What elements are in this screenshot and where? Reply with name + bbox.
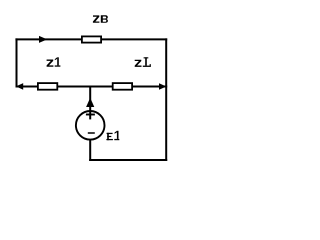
current arrow on middle wire, right (pointing right)	[159, 83, 166, 90]
label ZB: glyph B	[101, 15, 108, 22]
voltage source E1: stem wire from middle wire into circle	[89, 87, 91, 120]
current arrow on middle wire, left (pointing left)	[16, 83, 23, 90]
voltage source E1: minus bar	[88, 132, 95, 134]
resistor ZB (box on top wire)	[82, 36, 101, 42]
label Z1: glyph 1	[55, 57, 61, 66]
wire: top horizontal	[15, 38, 167, 40]
wire: middle horizontal	[16, 86, 168, 88]
label E1: glyph E	[106, 133, 113, 140]
resistor Z1 (box on middle wire, left)	[38, 83, 57, 90]
wire: right vertical	[165, 38, 167, 161]
label zL: glyph z	[135, 60, 142, 67]
voltage source E1: arrowhead (pointing up)	[86, 98, 94, 107]
voltage source E1: plus bar	[86, 114, 95, 116]
label Z1: glyph z	[47, 60, 54, 67]
wire: E1 branch lower vertical	[89, 139, 91, 161]
resistor zL (box on middle wire, right)	[113, 83, 132, 90]
label ZB: glyph Z	[93, 15, 100, 22]
label E1: glyph 1	[114, 131, 119, 140]
voltage source E1: circle	[76, 111, 105, 140]
wire: bottom horizontal	[89, 159, 167, 161]
wire: left vertical	[16, 38, 18, 87]
current arrow on top wire	[39, 36, 47, 43]
label zL: glyph L	[143, 57, 151, 67]
